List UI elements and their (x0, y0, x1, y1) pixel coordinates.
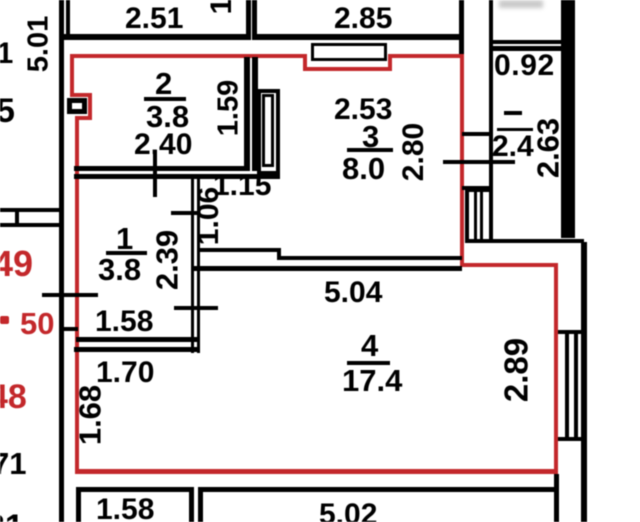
corridor left wall (489, 0, 493, 243)
bottom dimension 1.58 (96, 495, 154, 522)
room 2 label number (155, 68, 172, 99)
dimension 1.68 rotated (75, 385, 106, 445)
box 2.85 left wall (252, 0, 257, 40)
right window line 2 (574, 330, 578, 441)
left wall notch line lower (0, 223, 64, 227)
dimension 2.51 (125, 4, 183, 34)
bottom box2 right edge (554, 474, 559, 522)
dimension 2.39 rotated (152, 230, 183, 290)
hall/room4 wall top line a (197, 248, 281, 252)
red boundary top right segment (388, 54, 464, 58)
hall/room4 wall top line b (277, 256, 462, 260)
tick on hall wall lower (174, 306, 218, 310)
corridor lintel line 1 (493, 40, 563, 44)
dimension 5.01 rotated (25, 15, 54, 71)
top window step up right (388, 54, 392, 71)
shaft left edge (465, 188, 469, 243)
corridor lintel line 2 (493, 46, 563, 51)
red right boundary of room 3 (460, 54, 464, 267)
black square window box (67, 98, 87, 114)
dimension 0.92 (494, 51, 555, 81)
room 2 area 3.8 (146, 101, 189, 132)
door jamb inner rect (262, 94, 274, 167)
box 2.51 bottom wall (64, 34, 251, 40)
room1/room2 wall lower line (74, 174, 280, 179)
hall/room4 wall step (277, 248, 281, 260)
right window top edge (558, 330, 586, 334)
shaft top edge (465, 188, 493, 192)
room 1 bottom wall lower line (74, 347, 200, 352)
box 2.51 right wall (246, 0, 251, 40)
tick across corridor (443, 160, 515, 164)
left outer wall (59, 0, 64, 522)
red notch horizontal 2 (75, 116, 92, 120)
room 3 area 8.0 (342, 153, 385, 184)
red left boundary (75, 116, 79, 474)
corridor overline (497, 128, 533, 131)
red room4 right boundary (554, 263, 558, 474)
box 2.51 left inner wall (66, 0, 70, 40)
dimension 2.63 rotated (533, 118, 564, 178)
small tick lower left (64, 327, 78, 331)
door jamb outer rect (257, 89, 280, 175)
right window line 1 (565, 330, 569, 441)
dimension 2.4 (492, 132, 534, 162)
dimension 1.70 (96, 358, 154, 388)
red notch vertical mid (88, 93, 92, 120)
shaft connector upper (462, 132, 493, 136)
room 3 fraction line (347, 148, 393, 152)
hall/room4 wall bottom line (194, 266, 462, 271)
black apartment number 71 (0, 448, 26, 479)
tick across room1 left (42, 293, 98, 297)
dimension 1.58 (95, 307, 153, 337)
left wall notch connector (15, 208, 19, 227)
red under window (303, 67, 392, 71)
room 4 label number (361, 330, 378, 361)
room 1 bottom wall upper line (76, 337, 200, 342)
red small mark (0, 316, 9, 324)
shaft connector lower (462, 186, 493, 190)
room 4 area 17.4 (342, 365, 402, 396)
box 2.85 right wall (459, 0, 464, 55)
red bottom boundary (75, 469, 558, 474)
red room4 top right segment (460, 263, 558, 267)
right window bottom edge (558, 437, 586, 441)
dimension 2.40 (134, 130, 192, 160)
bottom box1 top edge (76, 487, 194, 492)
room 3 label number (362, 121, 379, 152)
wall between room2 and room3 left line (244, 57, 250, 171)
partial number 31 left edge (0, 39, 13, 69)
red apartment number 48 (0, 380, 27, 414)
bottom box2 left edge (198, 487, 203, 522)
dimension 1.15 (213, 171, 271, 201)
hall left wall line 2 (197, 174, 200, 353)
shaft hatch line 2 (480, 188, 483, 243)
rotated 1 top (207, 0, 237, 14)
dimension 5.04 (324, 278, 382, 308)
room 3 dimension 2.53 (334, 95, 392, 125)
shaft hatch line 1 (474, 188, 477, 243)
bottom box1 left edge (76, 487, 81, 522)
top window rect (311, 43, 387, 61)
bottom box2 top edge (198, 487, 559, 492)
tick on hall wall upper (171, 211, 199, 215)
room 2 fraction line (144, 97, 186, 101)
shaft / corridor bottom wall (465, 239, 584, 243)
bottom box1 right edge (189, 487, 194, 522)
box 2.85 bottom wall (257, 34, 464, 40)
gray smudge text top right (499, 0, 543, 8)
red notch vertical upper (70, 54, 74, 96)
room 1 label number (116, 223, 133, 254)
room 4 fraction line (347, 361, 390, 365)
corridor upper dash (504, 111, 522, 115)
room1/room2 wall upper line (74, 166, 250, 171)
dimension 1.06 rotated (194, 187, 224, 245)
partial number bottom left (0, 510, 24, 522)
left wall notch line upper (0, 208, 64, 212)
red notch horizontal 1 (70, 93, 92, 97)
dimension 2.89 rotated (500, 338, 533, 402)
thick right wall (561, 0, 575, 238)
building outer wall right (581, 242, 587, 522)
dimension 2.80 rotated (399, 123, 429, 181)
dimension 1.59 rotated (215, 80, 244, 136)
hall left wall line 1 (191, 174, 194, 353)
red apartment number 49 (0, 246, 33, 282)
wall between room2 and room3 right line (252, 57, 258, 171)
red boundary top (70, 54, 307, 58)
tick under 2.40 (153, 150, 157, 197)
red apartment number 50 (20, 308, 54, 339)
top window step down left (303, 54, 307, 71)
dimension 2.85 (334, 4, 392, 34)
bottom dimension 5.02 (319, 500, 377, 522)
room 1 fraction line (106, 251, 147, 255)
partial number 5 left edge (0, 94, 15, 128)
room 1 area 3.8 (98, 254, 141, 285)
